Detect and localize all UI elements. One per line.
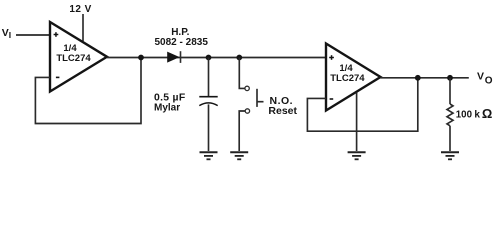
wire resistor top bbox=[449, 78, 451, 104]
node output U1A junction dot bbox=[138, 55, 144, 61]
svg-text:100: 100 bbox=[456, 110, 472, 121]
node capacitor branch junction dot bbox=[206, 55, 212, 61]
svg-text:Reset: Reset bbox=[268, 105, 297, 117]
wire switch top branch bbox=[239, 58, 245, 89]
wire main rail U1A output to U1B + input bbox=[107, 57, 326, 59]
op-amp U1A plus input mark bbox=[54, 32, 59, 37]
node switch branch junction dot bbox=[236, 55, 242, 61]
ground capacitor bbox=[200, 152, 218, 159]
svg-text:TLC274: TLC274 bbox=[56, 53, 91, 64]
wire switch bottom branch to ground bbox=[239, 111, 245, 151]
ground op-amp U1B bbox=[348, 152, 366, 159]
svg-text:Mylar: Mylar bbox=[154, 103, 180, 114]
switch S1 actuator tick bbox=[257, 101, 264, 103]
ground resistor bbox=[441, 152, 459, 159]
ground switch bbox=[230, 152, 248, 159]
label VI bbox=[2, 27, 11, 40]
wire VI input bbox=[16, 34, 50, 36]
capacitor C1 top plate bbox=[199, 96, 217, 98]
label 100 kOhm bbox=[456, 106, 493, 121]
label VO bbox=[477, 71, 493, 87]
op-amp U1B minus input mark bbox=[330, 98, 334, 100]
svg-text:V: V bbox=[477, 71, 484, 83]
switch S1 bottom contact circle bbox=[245, 109, 249, 113]
svg-text:I: I bbox=[9, 30, 11, 40]
op-amp U1B triangle bbox=[326, 44, 381, 111]
switch S1 actuator bar bbox=[256, 89, 258, 107]
capacitor C1 curved bottom plate bbox=[199, 103, 217, 106]
wire output rail bbox=[381, 77, 469, 79]
svg-text:k: k bbox=[474, 110, 480, 121]
node U1B output junction dot bbox=[415, 75, 421, 81]
svg-text:O: O bbox=[485, 75, 493, 86]
diode D1 cathode bar bbox=[180, 51, 182, 63]
wire U1B feedback loop bbox=[307, 78, 417, 131]
wire resistor to ground bbox=[449, 126, 451, 151]
op-amp U1B plus input mark bbox=[329, 55, 334, 60]
wire U1B ground stub bbox=[356, 93, 358, 152]
op-amp U1A triangle bbox=[50, 22, 107, 92]
diode D1 anode triangle bbox=[167, 52, 179, 63]
svg-text:TLC274: TLC274 bbox=[330, 73, 365, 84]
switch S1 top contact circle bbox=[245, 86, 249, 90]
wire capacitor top branch bbox=[208, 58, 210, 97]
svg-text:Ω: Ω bbox=[482, 106, 492, 121]
wire 12V supply bbox=[82, 14, 84, 41]
svg-text:5082 - 2835: 5082 - 2835 bbox=[155, 37, 209, 48]
wire U1A feedback loop bbox=[35, 58, 141, 124]
wire capacitor to ground bbox=[208, 104, 210, 151]
node resistor branch junction dot bbox=[447, 75, 453, 81]
svg-text:12 V: 12 V bbox=[69, 4, 91, 15]
resistor R1 zigzag bbox=[447, 104, 453, 126]
svg-text:V: V bbox=[2, 27, 9, 39]
op-amp U1A minus input mark bbox=[56, 76, 60, 78]
